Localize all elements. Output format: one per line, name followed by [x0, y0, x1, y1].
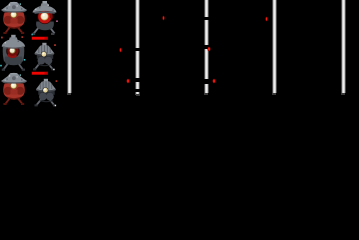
force-field bar 3 — [204, 0, 209, 93]
sprite sheet: six robot droids, left side — [0, 0, 62, 112]
health bar of robot B3 — [32, 72, 48, 75]
bar 2 notch lower — [134, 78, 142, 82]
red spark D right of bar 3 — [207, 46, 211, 52]
red spark C between bars 1 and 2 — [119, 47, 123, 53]
bar 4 dark tip — [272, 93, 276, 95]
bar 3 dark tip — [204, 93, 208, 95]
bar 1 dark tip — [67, 93, 71, 95]
robot B2: grey lantern droid — [33, 43, 56, 71]
robot A1: red droid top-left — [1, 2, 27, 34]
bar 3 notch mid — [202, 45, 210, 49]
shoulders — [3, 48, 25, 62]
force-field bar 4 — [272, 0, 277, 93]
eye socket and dim red ring — [6, 44, 20, 58]
red spark B left of bar 4 — [265, 16, 269, 22]
force-field bar 2 — [135, 0, 140, 89]
health bar of robot B2 — [31, 34, 48, 40]
bar 3 notch upper — [202, 17, 210, 20]
robot A3: red droid bottom-left — [1, 73, 27, 105]
red spark F right of bar 3 — [212, 78, 216, 84]
tiered dome — [42, 1, 47, 4]
bar 2 dark tip — [136, 94, 140, 96]
bar 5 dark tip — [341, 93, 345, 95]
bar 2 notch at mid — [134, 48, 142, 52]
red ring eye — [38, 9, 53, 24]
red spark E left of bar 2 — [126, 78, 130, 84]
bar 2 lower stub — [135, 92, 140, 95]
robot A2: grey droid with red ring eye, facing left — [0, 35, 25, 71]
force-field bar 5 — [341, 0, 346, 93]
tiered dome — [11, 35, 15, 38]
robot B3: grey lantern droid — [35, 79, 58, 107]
force-field bar 1 — [67, 0, 72, 93]
bar 3 notch lower — [202, 79, 210, 85]
red spark A between bars 2 and 3 — [162, 15, 166, 21]
robot B1: grey droid with red ring eye — [32, 1, 58, 35]
